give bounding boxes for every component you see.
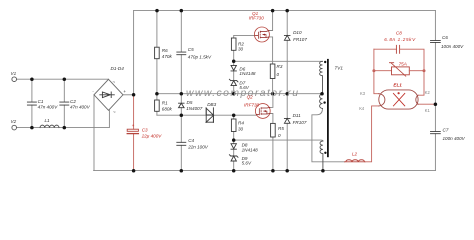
svg-text:0: 0 [278, 133, 281, 138]
node bottom rail D11 [285, 169, 289, 173]
svg-text:TV1: TV1 [335, 65, 344, 70]
svg-text:5.6V: 5.6V [242, 160, 252, 165]
svg-text:K1: K1 [425, 108, 431, 113]
svg-text:~: ~ [112, 80, 115, 85]
svg-text:C3: C3 [142, 127, 148, 132]
wire R4 bottom to gate2 node [233, 132, 235, 144]
TV1 phase dot B [323, 101, 325, 103]
wire Q1 source to R3 [269, 37, 272, 64]
wire gate2 line to TV1 winding C [234, 139, 323, 142]
capacitor C6 [431, 40, 441, 42]
lamp left filament [379, 94, 385, 106]
transistor Q2 (IRF730) [255, 104, 270, 119]
wire C2 column [63, 79, 65, 127]
svg-text:V1: V1 [11, 71, 17, 76]
svg-text:C5: C5 [188, 47, 194, 52]
node bottom rail C3 [132, 169, 136, 173]
node midpoint D7 [232, 92, 236, 96]
svg-text:K4: K4 [359, 106, 365, 111]
wire L2 to lamp K4 riser [365, 106, 379, 162]
diac DB3 [206, 108, 213, 123]
inductor L2 [345, 160, 366, 162]
node bottom rail C4 [180, 169, 184, 173]
node gate2 R4/D8 [232, 138, 236, 142]
node gate1 R2/D6 [232, 60, 236, 64]
svg-text:DB3: DB3 [207, 102, 216, 107]
wire Q2 drain [270, 94, 273, 108]
svg-text:D5: D5 [187, 100, 193, 105]
node midpoint D10/D11 [285, 92, 289, 96]
svg-text:22μ 400V: 22μ 400V [141, 133, 163, 138]
inductor L1 [40, 125, 59, 127]
svg-text:680k: 680k [162, 106, 173, 111]
wire midpoint rail [157, 93, 323, 95]
lamp EL1 body [379, 90, 418, 109]
svg-text:FR107: FR107 [293, 120, 307, 125]
svg-text:D11: D11 [293, 113, 302, 118]
wire R2 bottom to D6 [233, 50, 235, 65]
TV1 phase dot C [324, 152, 326, 154]
diode D6 [231, 65, 236, 71]
node midpoint C5/D5 [180, 92, 184, 96]
transistor Q1 (IRF730) [254, 27, 269, 42]
svg-text:EL1: EL1 [393, 82, 402, 87]
svg-text:22n 100V: 22n 100V [187, 145, 209, 150]
svg-text:~: ~ [113, 110, 116, 115]
wire D10 column [286, 11, 288, 94]
junction C8/PTC right node [423, 69, 426, 72]
node top rail C5 [180, 9, 184, 13]
node starter D5/C4 [180, 113, 184, 117]
lamp right filament [416, 95, 418, 104]
svg-text:R1: R1 [162, 101, 168, 106]
diode D11 [284, 118, 290, 123]
resistor R5 [271, 123, 276, 137]
svg-text:K2: K2 [425, 90, 431, 95]
red labels [132, 11, 417, 157]
transformer TV1 winding C [320, 141, 323, 171]
node starter diac/R4 [232, 113, 236, 117]
svg-text:C2: C2 [70, 99, 76, 104]
svg-text:30: 30 [238, 46, 244, 51]
terminal V2 [12, 125, 17, 130]
wire C6 column [434, 11, 436, 105]
svg-text:R6: R6 [162, 48, 168, 53]
lamp cathode dot [398, 92, 400, 94]
wire C3 column [133, 95, 135, 171]
svg-text:Q2: Q2 [247, 94, 254, 99]
wire D7 to midpoint rail [233, 86, 235, 94]
resistor R3 [270, 64, 275, 79]
thermistor 75A [392, 67, 410, 75]
node bottom rail D9 [232, 169, 236, 173]
svg-text:V2: V2 [11, 119, 17, 124]
svg-text:75A: 75A [399, 62, 407, 67]
transformer TV1 winding A [320, 61, 323, 93]
svg-text:470p 1.5kV: 470p 1.5kV [188, 55, 212, 60]
svg-text:R3: R3 [277, 64, 283, 69]
wire Q2 source to R5 [270, 114, 273, 124]
capacitor C4 [177, 142, 186, 145]
wire winding B exit to L2 [312, 109, 345, 162]
wire D9 to bottom rail [233, 161, 235, 171]
zener D7 [229, 79, 238, 85]
node top rail D10 [285, 9, 289, 13]
wire bridge plus arm [123, 94, 134, 96]
wire C4 leads [180, 115, 182, 170]
wire DC-minus drop from bridge left vertex [93, 95, 95, 171]
svg-text:47n 400V: 47n 400V [70, 104, 91, 109]
node midpoint R3/Q2 drain [271, 92, 275, 96]
node V2/C1 [30, 126, 34, 130]
svg-text:L2: L2 [352, 152, 358, 157]
svg-text:+: + [123, 89, 126, 94]
wire C7 column [434, 104, 436, 170]
wire C5 column [180, 11, 182, 94]
wire C8 branch left [374, 48, 397, 50]
svg-text:R5: R5 [278, 126, 284, 131]
svg-text:C7: C7 [443, 128, 449, 133]
node V1/C2 [63, 77, 67, 81]
svg-text:100n 400V: 100n 400V [441, 44, 464, 49]
svg-text:+: + [132, 123, 135, 128]
svg-text:K3: K3 [360, 91, 366, 96]
node V2/C2 [63, 126, 67, 130]
terminal V1 [12, 77, 17, 82]
wire C8 branch right [400, 49, 424, 70]
lamp X mark [393, 93, 404, 106]
svg-text:R4: R4 [238, 121, 244, 126]
wire gate1 line to TV1 winding A [234, 60, 323, 62]
wire PTC branch right [409, 70, 424, 72]
svg-text:D10: D10 [293, 30, 302, 35]
svg-text:C8: C8 [396, 31, 402, 36]
TV1 phase dot A [324, 61, 326, 63]
svg-text:1N4148: 1N4148 [239, 71, 256, 76]
wire Q1 drain [269, 11, 272, 31]
wire V1 rail [17, 78, 109, 80]
resistor R6 [155, 47, 160, 59]
node V1/C1 [30, 77, 34, 81]
svg-text:100n 400V: 100n 400V [443, 136, 466, 141]
svg-text:5.6V: 5.6V [239, 85, 249, 90]
wire bottom rail [94, 170, 436, 172]
svg-text:1N4148: 1N4148 [242, 148, 259, 153]
capacitor C5 [177, 52, 186, 55]
wire R5 bottom [272, 137, 274, 171]
transformer TV1 winding B [320, 94, 323, 108]
junction C8/PTC left node [372, 69, 375, 72]
capacitor C7 [431, 132, 441, 134]
resistor R1 [155, 100, 160, 111]
capacitor C3 (electrolytic) [127, 129, 138, 131]
wire D6-D7 link [233, 71, 235, 81]
svg-text:D1-D4: D1-D4 [111, 66, 125, 71]
black labels [11, 30, 466, 165]
node midpoint TV1 tap [320, 92, 324, 96]
resistor R2 [231, 38, 236, 50]
svg-text:1N4007: 1N4007 [186, 106, 203, 111]
wire K2 lead [418, 71, 424, 96]
wire R1 column [156, 94, 158, 116]
capacitor C1 [27, 102, 36, 105]
svg-text:L1: L1 [45, 118, 51, 123]
wire C1 column [31, 79, 33, 127]
node top rail R6 [155, 9, 159, 13]
diode D10 [284, 35, 290, 40]
wire top rail [134, 10, 436, 12]
svg-text:FR107: FR107 [293, 37, 307, 42]
svg-text:C6: C6 [442, 35, 448, 40]
svg-text:C4: C4 [188, 138, 194, 143]
diode D8 [231, 144, 236, 150]
capacitor C2 [60, 102, 69, 105]
svg-text:47n 400V: 47n 400V [38, 104, 59, 109]
node top rail Q1 drain [271, 9, 275, 13]
wire D5 leads [180, 94, 182, 116]
wire Q1 gate [234, 35, 255, 38]
wire D11 column [286, 94, 288, 171]
svg-text:0: 0 [277, 72, 280, 77]
wire starter rail to Q2 gate [157, 114, 257, 116]
resistor R4 [231, 119, 236, 132]
svg-text:30: 30 [238, 126, 244, 131]
node bridge plus [132, 93, 136, 97]
bridge rectifier D1-D4 diamond [94, 79, 123, 110]
node K1/C6/C7 [434, 102, 438, 106]
node midpoint R6/R1 [155, 92, 159, 96]
bridge inner diode [100, 92, 115, 98]
wire DC-plus riser [133, 11, 135, 95]
zener D9 [229, 155, 238, 161]
svg-text:C1: C1 [38, 99, 44, 104]
svg-text:6.8n 1.25kV: 6.8n 1.25kV [384, 37, 416, 42]
wire R3 bottom [272, 79, 274, 94]
diode D5 [179, 103, 185, 108]
wire PTC branch left [374, 70, 392, 72]
node bottom rail TV1 winding C [321, 169, 325, 173]
capacitor C8 [396, 45, 399, 53]
wire V2 rail to bridge bottom vertex [17, 110, 110, 127]
svg-text:IRF730: IRF730 [244, 103, 260, 108]
transformer TV1 core [327, 60, 329, 157]
wire K1 lead [417, 103, 436, 105]
svg-text:IRF730: IRF730 [249, 16, 265, 21]
wire R6 column [156, 11, 158, 94]
wire D8-D9 link [233, 149, 235, 156]
node bottom rail R5 [271, 169, 275, 173]
svg-text:470k: 470k [162, 54, 173, 59]
wire K3 riser [374, 49, 379, 93]
wire R4 top [233, 115, 235, 119]
